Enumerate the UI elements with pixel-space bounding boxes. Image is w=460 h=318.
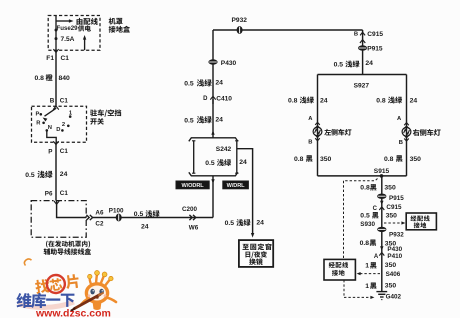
svg-text:24: 24 (239, 159, 247, 166)
svg-text:0.8: 0.8 (35, 75, 45, 82)
connector P932 (chain) (377, 227, 404, 239)
label 0.5浅绿 24 (left col) (25, 171, 67, 179)
switch arm (42, 108, 57, 121)
chain wire below S915 (381, 176, 383, 291)
svg-text:C2: C2 (95, 221, 104, 228)
splice S242 bracket (189, 138, 239, 176)
svg-text:P410: P410 (387, 253, 402, 260)
label 0.8黑 350 (below S915) (360, 184, 396, 191)
svg-text:P430: P430 (221, 60, 237, 67)
svg-text:P: P (48, 148, 52, 155)
svg-text:350: 350 (386, 212, 398, 219)
label 0.8黑 350 (below P932) (360, 239, 397, 247)
svg-text:N: N (48, 125, 52, 131)
wire inside junction box (57, 201, 87, 218)
lamp left 左侧车灯 (308, 116, 351, 146)
label 驻车/空挡 开关 (90, 109, 121, 124)
svg-text:C410: C410 (216, 95, 232, 102)
svg-text:C915: C915 (367, 31, 383, 38)
wire top run P932 (213, 29, 363, 31)
svg-text:P6: P6 (45, 190, 53, 197)
ground box right 经配线接地 (406, 213, 436, 230)
svg-text:350: 350 (385, 262, 397, 269)
svg-text:C1: C1 (60, 190, 69, 197)
splice S930 + dashed arrow to ground box (360, 221, 405, 228)
junction box entry arrow (54, 201, 59, 204)
watermark 找芯片 (34, 272, 80, 295)
node P6/C1 (45, 190, 69, 197)
wire P-C1 to P6-C1 (55, 142, 57, 200)
wire A6 to C200 (93, 217, 213, 219)
label 0.5浅绿 24 (mirror branch) (225, 219, 265, 227)
svg-text:W/DRL: W/DRL (227, 183, 246, 189)
watermark mascot (72, 271, 117, 311)
svg-text:C: C (373, 206, 378, 212)
svg-text:0.8: 0.8 (288, 97, 298, 104)
wire C410 to S242 (212, 99, 214, 138)
svg-text:0.5: 0.5 (205, 160, 215, 167)
svg-text:P915: P915 (389, 195, 404, 202)
svg-text:24: 24 (256, 219, 264, 226)
label 0.5浅绿 24 (above C410) (184, 79, 223, 87)
svg-text:B: B (399, 140, 403, 146)
svg-text:840: 840 (59, 75, 71, 82)
svg-text:0.8: 0.8 (360, 185, 370, 192)
wire branch to mirror (237, 149, 255, 238)
svg-text:350: 350 (410, 156, 422, 163)
connector P915 (top) (358, 45, 383, 52)
svg-text:0.5: 0.5 (25, 172, 35, 179)
svg-text:0.5: 0.5 (225, 220, 235, 227)
svg-text:0.5: 0.5 (334, 61, 344, 68)
mirror box 至固定窗日/夜变换镜 (239, 240, 273, 267)
svg-text:0.5: 0.5 (184, 81, 194, 88)
svg-text:0.8: 0.8 (376, 97, 386, 104)
svg-text:24: 24 (141, 223, 149, 230)
svg-text:2: 2 (62, 122, 65, 128)
svg-text:P932: P932 (232, 17, 248, 24)
connector P932 (top) (232, 17, 248, 34)
svg-text:P: P (36, 111, 40, 117)
label 0.8浅绿 24 (right branch) (376, 97, 417, 105)
switch exit arrow (53, 141, 58, 144)
switch output wire (47, 130, 56, 142)
watermark 维库一下 (16, 293, 74, 308)
svg-text:0.5: 0.5 (134, 211, 144, 218)
svg-text:0.5: 0.5 (184, 117, 194, 124)
dashed wire ground box to G402 (344, 280, 374, 299)
switch entry arrow (53, 106, 59, 110)
switch contacts P R N D 2 1 (36, 111, 73, 133)
svg-text:7.5A: 7.5A (61, 36, 75, 43)
svg-text:0.8: 0.8 (360, 240, 370, 247)
label 0.5浅绿 24 (inside S242) (205, 159, 247, 167)
label Fuse29 供电 (57, 25, 91, 32)
svg-text:F1: F1 (46, 55, 54, 62)
exit arrow at fuse box bottom (53, 49, 58, 52)
svg-text:W6: W6 (189, 224, 199, 231)
svg-text:A6: A6 (95, 210, 104, 217)
svg-text:Fuse29: Fuse29 (57, 25, 79, 32)
svg-text:C915: C915 (386, 204, 402, 211)
node P430/P410 (chain) (374, 246, 403, 260)
connector P430 (mid) (208, 59, 236, 67)
node D/C410 (203, 95, 232, 104)
svg-text:0.8: 0.8 (384, 156, 394, 163)
node B/C1 (50, 97, 69, 104)
svg-text:24: 24 (410, 97, 418, 104)
svg-text:1: 1 (365, 283, 369, 290)
svg-text:P932: P932 (389, 231, 404, 238)
svg-text:350: 350 (385, 282, 397, 289)
svg-text:S406: S406 (386, 271, 401, 278)
PNP switch box (dashed) (32, 106, 87, 142)
svg-text:C1: C1 (60, 148, 69, 155)
ground box left 经配线接地 (324, 259, 355, 280)
label 0.5浅绿 24 (above S927) (334, 60, 374, 69)
svg-text:B: B (354, 32, 358, 38)
label 0.8橙 840 (35, 74, 71, 82)
watermark sparkle (24, 259, 31, 266)
node P/C1 (48, 148, 68, 155)
svg-text:S915: S915 (374, 168, 390, 175)
svg-text:B: B (50, 97, 55, 104)
arrow + label 由配线 (56, 18, 98, 25)
option tag W/DRL (223, 181, 249, 189)
svg-text:D: D (203, 96, 208, 102)
watermark www.dzsc.com (35, 308, 111, 318)
svg-text:C1: C1 (61, 55, 70, 62)
svg-text:D: D (56, 127, 60, 133)
splice S242 arrow down (211, 176, 214, 218)
label 0.5浅绿 24 (below C410) (184, 116, 223, 124)
svg-text:P100: P100 (109, 207, 124, 214)
node A6/C2 exit chevrons (86, 210, 104, 228)
node C200/W6 (182, 206, 199, 231)
ground G402 (376, 292, 401, 301)
connector P100 (109, 207, 124, 221)
splice S927 / lamp loop wires (318, 75, 407, 176)
label 7.5A (61, 36, 75, 43)
option tag W/O DRL (176, 181, 209, 189)
arrow up at P915 (360, 40, 365, 43)
svg-text:0.8: 0.8 (294, 156, 304, 163)
svg-text:C200: C200 (182, 206, 198, 213)
label 0.8浅绿 24 (left branch) (288, 97, 328, 105)
label 0.5浅绿 24 (horizontal run) (134, 210, 160, 230)
fuse box (dashed) (48, 16, 100, 51)
connector P915 (chain) (377, 194, 404, 202)
svg-text:www.dzsc.com: www.dzsc.com (35, 308, 111, 318)
node B/C915 (top corner) (354, 30, 384, 75)
splice S915 (374, 168, 390, 178)
fuse F1 element (55, 16, 58, 51)
label 0.8黑 350 (right lamp) (384, 155, 421, 163)
splice S406 + dashed arrow to ground box (357, 271, 401, 278)
dashed wire S915 to ground box (344, 179, 378, 260)
svg-text:W/ODRL: W/ODRL (182, 183, 205, 189)
svg-text:1: 1 (365, 263, 369, 270)
svg-text:24: 24 (215, 116, 223, 123)
svg-text:G402: G402 (386, 294, 402, 301)
svg-text:C1: C1 (60, 97, 69, 104)
svg-text:24: 24 (320, 97, 328, 104)
svg-text:0.5: 0.5 (360, 213, 370, 220)
label 机罩 接地盒 (109, 18, 130, 33)
svg-text:S242: S242 (216, 146, 232, 153)
svg-text:P915: P915 (367, 46, 383, 53)
svg-text:B: B (308, 139, 312, 145)
lamp right 右侧车灯 (397, 116, 441, 146)
wire down to P430 (212, 30, 214, 96)
splice S242 arrow up (211, 130, 214, 135)
svg-text:24: 24 (365, 60, 373, 67)
label 1黑 350 (above S406) (365, 262, 396, 270)
svg-text:350: 350 (384, 185, 396, 192)
label (在发动机罩内) 辅助导线接线盒 (44, 241, 91, 255)
svg-text:A: A (374, 254, 379, 260)
svg-text:350: 350 (320, 156, 332, 163)
node C/C915 (chain) (373, 201, 402, 212)
svg-text:24: 24 (215, 80, 223, 87)
label 1黑 350 (above G402) (365, 282, 396, 290)
label 0.5黑 350 (chain) (360, 212, 397, 219)
wire F1-C1 to B-C1 (55, 50, 57, 106)
svg-text:S927: S927 (354, 83, 370, 90)
label 0.8黑 350 (left lamp) (294, 155, 332, 163)
svg-text:24: 24 (60, 171, 68, 178)
node F1/C1 (46, 55, 69, 62)
svg-text:S930: S930 (360, 221, 375, 228)
arrow up to fuse (83, 35, 86, 50)
auxiliary junction box (dash-dot) (31, 201, 86, 238)
